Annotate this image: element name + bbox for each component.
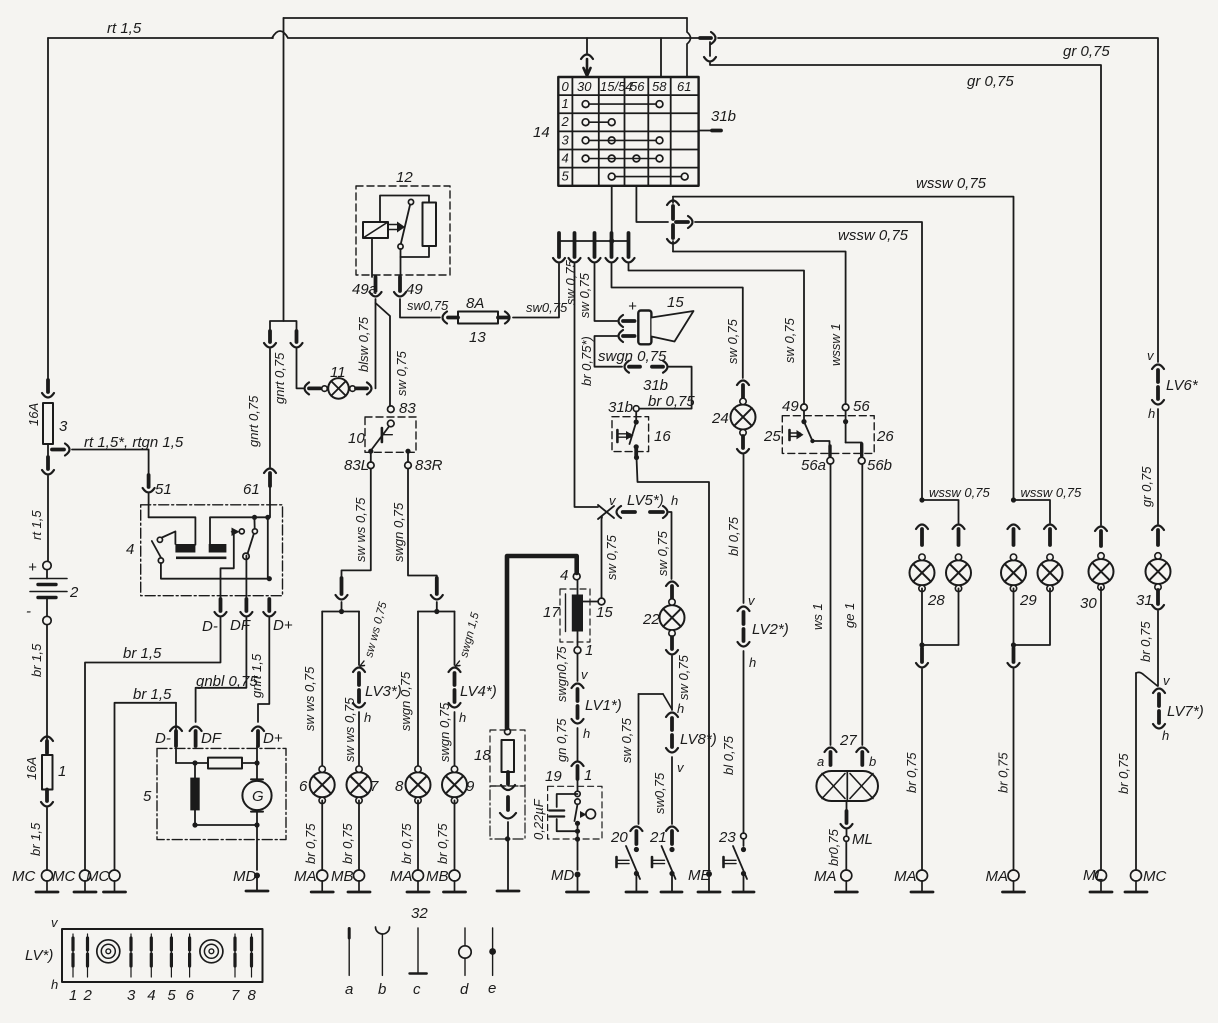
svg-text:19: 19	[545, 768, 562, 785]
svg-text:gr 0,75: gr 0,75	[1139, 466, 1154, 507]
ground MC right	[1125, 870, 1147, 892]
svg-text:br 0,75*): br 0,75*)	[579, 336, 594, 386]
svg-text:7: 7	[370, 778, 379, 795]
wire swgn 0,75 coil 1 to LV1	[577, 654, 579, 681]
svg-text:5: 5	[167, 987, 176, 1004]
svg-text:e: e	[488, 980, 496, 997]
svg-text:G: G	[252, 788, 264, 805]
connector LV8	[666, 713, 678, 753]
svg-text:D+: D+	[273, 617, 293, 634]
legend symbol a	[348, 929, 350, 976]
svg-text:56a: 56a	[801, 457, 826, 474]
svg-text:sw 0,75: sw 0,75	[655, 530, 670, 576]
wire lamp 11 to 49a	[375, 299, 377, 388]
wire col 56 drop	[636, 186, 668, 222]
wire spark plug to ground	[497, 822, 519, 891]
connector horn minus	[619, 330, 635, 342]
svg-text:LV8*): LV8*)	[680, 731, 717, 748]
ground MC 2	[74, 870, 96, 892]
parking lamp 31	[1146, 553, 1171, 591]
stop lamp 22	[660, 599, 685, 637]
svg-text:3: 3	[127, 987, 136, 1004]
terminal 83R	[405, 451, 412, 468]
wire 49a branch to switch 10	[376, 303, 391, 406]
svg-text:56: 56	[630, 79, 645, 94]
regulator cutout contact arm	[152, 537, 164, 563]
dimmer 49 contact	[801, 411, 812, 441]
wire harness pin 2 down to LV5	[575, 264, 599, 507]
suppressor resistor body	[502, 740, 515, 772]
svg-text:sw 0,75: sw 0,75	[394, 350, 409, 396]
svg-text:ME: ME	[688, 867, 711, 884]
connector DF regulator	[240, 599, 252, 617]
wire relay output to 49	[400, 249, 402, 277]
junction bar lamps 6/7	[322, 602, 359, 614]
connector below lamp 24	[737, 436, 749, 454]
lamp 28 right	[946, 554, 971, 592]
svg-text:0: 0	[562, 79, 570, 94]
fuse 3 16A body	[43, 403, 53, 444]
svg-text:blsw 0,75: blsw 0,75	[356, 316, 371, 372]
wire fuse 13 to relay terminal 49	[400, 299, 440, 318]
connector above fuse 3	[42, 380, 54, 398]
svg-text:swgn0,75: swgn0,75	[554, 646, 569, 702]
wire to connector LV3	[358, 612, 360, 666]
svg-text:sw 0,75: sw 0,75	[782, 317, 797, 363]
svg-text:h: h	[583, 726, 590, 741]
svg-text:h: h	[459, 710, 466, 725]
wire swgn 0,75 from 83R	[408, 469, 437, 578]
ground bar switch 23	[733, 874, 754, 893]
svg-text:wssw 0,75: wssw 0,75	[929, 485, 990, 500]
wire lamp 30 to ML	[1100, 587, 1102, 870]
connector cross splice 56	[667, 197, 693, 252]
connector right of fuse 13	[498, 312, 510, 324]
terminal 56b	[858, 457, 865, 464]
terminal 56a	[827, 457, 834, 464]
svg-text:DF: DF	[201, 730, 222, 747]
svg-text:MC: MC	[52, 868, 75, 885]
wire lamp 31 return to MC	[1136, 672, 1158, 870]
svg-text:a: a	[345, 981, 353, 998]
wire gnrt riser from 61 bus	[283, 18, 285, 321]
regulator DF step link	[221, 534, 234, 579]
wire br 0,75 lamps 29	[1013, 669, 1015, 870]
tail lamp 24	[731, 398, 756, 436]
svg-text:br 0,75: br 0,75	[303, 823, 318, 864]
wire harness pin 5 to dimmer 49	[629, 264, 805, 404]
terminal 56 dimmer	[842, 404, 849, 411]
svg-text:83: 83	[399, 400, 416, 417]
wire lamp 7 to ground MB	[358, 800, 360, 870]
headlamp connector block LV box	[62, 929, 263, 982]
lamp 29 left	[1001, 554, 1026, 592]
terminal 49 dimmer	[801, 404, 808, 411]
svg-text:8: 8	[248, 987, 257, 1004]
terminal suppressor top	[505, 729, 511, 735]
wire br 1,5 D- to ground MC2	[85, 618, 221, 870]
wire sw 0,75 to switch 20	[638, 694, 640, 824]
ignition-light switch 14 table frame	[558, 77, 698, 186]
svg-text:30: 30	[1080, 595, 1097, 612]
wire 51 into regulator	[148, 494, 150, 517]
ground bar switch 21	[661, 874, 682, 893]
svg-text:DF: DF	[230, 617, 251, 634]
ground MC battery	[36, 870, 58, 892]
svg-text:d: d	[460, 981, 469, 998]
svg-text:D-: D-	[202, 618, 218, 635]
svg-text:br 1,5: br 1,5	[123, 645, 162, 662]
connector pair swgn 31b	[625, 361, 668, 373]
condenser branch	[557, 794, 578, 807]
ground MB lamps 9	[444, 870, 466, 892]
svg-text:rt 1,5: rt 1,5	[107, 20, 142, 37]
generator field coil	[190, 778, 199, 811]
svg-text:+: +	[28, 559, 37, 576]
connector 49	[394, 277, 406, 297]
svg-text:29: 29	[1019, 592, 1037, 609]
svg-text:4: 4	[562, 151, 569, 166]
connector a lamp 27	[825, 748, 837, 766]
svg-text:LV5*): LV5*)	[627, 492, 664, 509]
wire gnbl 0,75 DF to generator	[196, 618, 247, 722]
wire br 1,5 generator D- to MC3	[175, 703, 177, 746]
wire ws 1 from 56a	[830, 464, 832, 745]
connector below lamps 28	[916, 648, 928, 668]
branch stop switch 20	[639, 694, 672, 709]
switch position 4 contacts 30-15/54-56-58	[582, 155, 663, 162]
svg-text:11: 11	[330, 364, 346, 381]
svg-text:13: 13	[469, 329, 486, 346]
terminal 15 ignition coil	[598, 598, 605, 605]
svg-text:swgn 0,75: swgn 0,75	[391, 502, 406, 562]
ground MA lamps 29	[1003, 870, 1025, 892]
connector right lamps 28	[953, 525, 965, 546]
ground MA lamps 8	[407, 870, 429, 892]
regulator top bus right	[210, 517, 268, 544]
svg-text:ge 1: ge 1	[842, 603, 857, 628]
wire LV4 to lamp 9	[454, 712, 456, 766]
blinker lamp 8	[406, 766, 431, 804]
connector 51	[143, 475, 155, 493]
svg-text:gnrt 1,5: gnrt 1,5	[249, 653, 264, 698]
ground bar switch 20	[626, 874, 647, 893]
harness connector pin 3	[589, 233, 601, 263]
svg-text:LV*): LV*)	[25, 947, 53, 964]
svg-text:1: 1	[58, 763, 66, 780]
svg-text:16A: 16A	[24, 757, 39, 780]
svg-text:MA: MA	[894, 868, 917, 885]
wire harness pin 4 to lamp 24	[612, 264, 743, 378]
wire to connector LV4	[454, 612, 456, 666]
connector left lamps 28	[916, 525, 928, 546]
svg-text:sw 0,75: sw 0,75	[619, 717, 634, 763]
connector gnrt right	[291, 331, 303, 348]
svg-text:br 0,75: br 0,75	[904, 752, 919, 793]
wire lamp 8 to ground MA	[417, 800, 419, 870]
connector left of fuse 13	[443, 312, 459, 324]
wire horn button to ME	[637, 458, 710, 871]
dimmer actuator	[790, 430, 804, 440]
svg-text:16A: 16A	[26, 403, 41, 426]
switch position 1 contacts 30-58	[582, 101, 663, 108]
condenser plates	[549, 811, 564, 817]
svg-text:MB: MB	[426, 868, 449, 885]
switch position 2 contacts 30-15/54	[582, 119, 615, 126]
wire LV3 to lamp 7	[358, 712, 360, 766]
wire horn minus to swgn connector	[595, 336, 623, 367]
wire 31b br 0,75 to horn button	[640, 367, 692, 409]
stop switch 21	[652, 827, 678, 880]
connector lamp group 8/9 feed	[431, 578, 443, 600]
svg-text:MA: MA	[986, 868, 1009, 885]
ground MA lamps 28	[911, 870, 933, 892]
wire fuse 3 to branch junction	[47, 444, 49, 455]
wire br 0,75 lamp 31 to LV7	[1157, 611, 1159, 686]
svg-text:10: 10	[348, 430, 365, 447]
connector 49a	[370, 277, 382, 297]
junction dots top bus	[252, 515, 271, 520]
svg-text:15: 15	[596, 604, 613, 621]
spark plug gap	[500, 797, 516, 819]
svg-text:0,22µF: 0,22µF	[531, 798, 546, 840]
regulator right actuator arrow	[232, 528, 240, 537]
svg-text:56b: 56b	[867, 457, 892, 474]
relay 12 resistor	[423, 203, 437, 247]
LV block pin 4	[150, 934, 152, 977]
svg-text:ML: ML	[1083, 867, 1104, 884]
breaker 19 box	[548, 786, 602, 839]
svg-text:sw ws 0,75: sw ws 0,75	[302, 666, 317, 731]
svg-text:14: 14	[533, 124, 550, 141]
wire bl 0,75 lower	[743, 651, 745, 833]
wire branch to regulator 51	[72, 450, 149, 476]
connector below lamp 22	[666, 637, 678, 655]
wire branch down from splice to lower gr wire	[704, 42, 1101, 525]
wire sw ws 0,75 to lamp 6	[321, 612, 323, 766]
suppressor 18 upper box	[490, 730, 525, 786]
wire br 0,75 lamps 28	[921, 669, 923, 870]
svg-text:b: b	[378, 981, 386, 998]
regulator bottom bus	[161, 563, 269, 579]
svg-text:sw ws 0,75: sw ws 0,75	[342, 697, 357, 762]
generator field circuit	[176, 746, 208, 778]
connector D- generator	[170, 727, 182, 747]
svg-text:21: 21	[649, 829, 667, 846]
svg-text:15: 15	[667, 294, 684, 311]
terminal MD generator	[254, 873, 260, 879]
svg-text:28: 28	[927, 592, 945, 609]
ground bar MD generator	[246, 878, 268, 891]
svg-text:br 0,75: br 0,75	[399, 823, 414, 864]
svg-text:83L: 83L	[344, 457, 369, 474]
svg-text:1: 1	[562, 96, 569, 111]
relay 12 coil	[363, 222, 388, 238]
svg-text:61: 61	[243, 481, 260, 498]
wire gr 0,75 LV6 to lamp 31	[1157, 409, 1159, 524]
connector below branch	[42, 457, 54, 475]
svg-text:rt 1,5: rt 1,5	[29, 510, 44, 540]
svg-text:swgn 0,75: swgn 0,75	[398, 671, 413, 731]
svg-text:MD: MD	[551, 867, 574, 884]
svg-text:31b: 31b	[608, 399, 633, 416]
horn 15 trumpet	[652, 311, 694, 342]
connector left of lamp 11	[305, 382, 321, 394]
svg-text:-: -	[26, 603, 31, 620]
switch position 3 contacts 30-15/54-58	[582, 137, 663, 144]
wire lamps 28 merge	[919, 588, 958, 647]
svg-text:5: 5	[562, 169, 570, 184]
wire LV8 to switch 21	[671, 757, 673, 824]
generator armature G	[242, 779, 271, 811]
svg-text:gr 0,75: gr 0,75	[1063, 43, 1110, 60]
svg-text:rt 1,5*, rtgn 1,5: rt 1,5*, rtgn 1,5	[84, 434, 184, 451]
switch 10 moving contact	[372, 420, 394, 449]
ignition coil 17 box	[560, 589, 590, 642]
regulator coil left	[175, 544, 195, 553]
harness connector pin 2	[569, 233, 581, 263]
svg-text:br 0,75: br 0,75	[340, 823, 355, 864]
svg-text:83R: 83R	[415, 457, 443, 474]
svg-text:sw0,75: sw0,75	[652, 772, 667, 814]
LV block pin 6	[189, 934, 191, 977]
svg-text:h: h	[677, 701, 684, 716]
relay 12 actuator arrow	[389, 222, 405, 233]
svg-text:MA: MA	[294, 868, 317, 885]
terminal MD breaker	[575, 872, 581, 878]
svg-text:br 1,5: br 1,5	[28, 822, 43, 856]
connector splice top right	[700, 32, 716, 44]
svg-text:br 0,75: br 0,75	[435, 823, 450, 864]
svg-text:20: 20	[610, 829, 628, 846]
svg-text:MB: MB	[331, 868, 354, 885]
wire swgn 0,75 to lamp 8	[417, 612, 419, 766]
fuse 13 8A body	[458, 312, 498, 324]
battery 2	[30, 561, 67, 624]
wire ge 1 from 56b	[861, 464, 863, 745]
blinker lamp 9	[442, 766, 467, 804]
harness connector pin 1	[553, 233, 565, 263]
harness connector pin 4	[606, 233, 618, 263]
generator regulating resistor	[208, 758, 242, 769]
regulator DF output drop	[245, 556, 247, 600]
generator bottom bus	[192, 810, 259, 827]
connector right of lamp 11	[356, 382, 372, 394]
dimmer 56 link to 56b	[843, 411, 862, 456]
tail lamp 30	[1089, 553, 1114, 591]
junction dot lamps 28 feed	[919, 497, 924, 502]
switch 10 box	[365, 417, 416, 452]
wire hop over gnrt riser	[272, 31, 288, 38]
connector 1 breaker	[572, 762, 584, 780]
svg-text:2: 2	[69, 584, 79, 601]
svg-text:h: h	[1162, 728, 1169, 743]
switch 10 actuator	[382, 428, 392, 442]
legend symbol c	[410, 928, 427, 974]
svg-text:58: 58	[652, 79, 667, 94]
connector gnrt left	[264, 331, 276, 348]
wire 61 through-link D+	[267, 517, 269, 578]
svg-text:26: 26	[876, 428, 894, 445]
wire switch 16 output	[634, 447, 639, 460]
branch bar lamps 28	[922, 500, 959, 523]
svg-text:5: 5	[143, 788, 152, 805]
fuse 1 16A body	[42, 755, 53, 790]
wire to battery plus	[47, 476, 49, 561]
wire lamp 9 to ground MB	[454, 800, 456, 870]
connector right lamps 29	[1044, 525, 1056, 546]
svg-text:51: 51	[155, 481, 172, 498]
svg-text:a: a	[817, 754, 824, 769]
svg-text:61: 61	[677, 79, 691, 94]
legend symbol d	[459, 928, 471, 975]
svg-text:3: 3	[59, 418, 68, 435]
svg-text:sw0,75: sw0,75	[526, 300, 568, 315]
wire rt 1,5 horizontal main feed	[48, 37, 273, 39]
wire gnrt to indicator lamp 11	[297, 349, 304, 388]
wire fuse 1 to ground MC	[46, 808, 48, 870]
wire harness pin 3 to horn plus	[595, 264, 618, 321]
svg-text:br0,75: br0,75	[826, 828, 841, 866]
svg-text:30: 30	[577, 79, 592, 94]
svg-text:D+: D+	[263, 730, 283, 747]
svg-text:MA: MA	[814, 868, 837, 885]
wire 61-bus drop to ignition switch col 61 with hop	[687, 18, 691, 77]
connector LV6	[1152, 365, 1164, 405]
connector below lamp 31	[1152, 590, 1164, 610]
svg-text:br 1,5: br 1,5	[29, 643, 44, 677]
LV block pin 2	[87, 934, 89, 977]
svg-text:sw ws 0,75: sw ws 0,75	[353, 497, 368, 562]
svg-text:br 1,5: br 1,5	[133, 686, 172, 703]
connector D- regulator	[215, 599, 227, 617]
svg-text:MD: MD	[233, 868, 256, 885]
wire wssw 0,75 upper to lamps 29	[673, 197, 1014, 500]
svg-text:8A: 8A	[466, 295, 484, 312]
generator 5 box	[157, 748, 286, 839]
wire lamp 27 to ML	[841, 801, 853, 836]
connector lamp group 6/7 feed	[336, 578, 348, 600]
svg-text:ws 1: ws 1	[810, 603, 825, 630]
regulator top bus left	[149, 517, 196, 544]
junction dot lamps 29 feed	[1011, 497, 1016, 502]
connector LV5	[617, 506, 668, 518]
svg-text:bl 0,75: bl 0,75	[726, 516, 741, 556]
svg-text:wssw 1: wssw 1	[828, 323, 843, 366]
svg-text:h: h	[364, 710, 371, 725]
svg-text:4: 4	[147, 987, 155, 1004]
spark plug box	[490, 786, 525, 839]
relay 12 armature arm	[398, 199, 414, 249]
blinker lamp 6	[310, 766, 335, 804]
ignition coil 17 winding	[572, 595, 583, 632]
connector LV1	[572, 684, 584, 724]
wire drop to ignition switch col 58	[660, 38, 662, 77]
svg-text:49: 49	[406, 281, 423, 298]
branch connector to terminal 51	[52, 444, 70, 456]
wire lamps 29 merge	[1011, 588, 1050, 647]
svg-text:h: h	[671, 493, 678, 508]
svg-text:MC: MC	[86, 868, 109, 885]
wire battery minus to fuse 1	[46, 625, 48, 742]
svg-text:ML: ML	[852, 831, 873, 848]
charge indicator lamp 11	[322, 378, 356, 399]
svg-text:h: h	[749, 655, 756, 670]
connector above lamp 24	[737, 381, 749, 399]
wire gr 0,75 upper to right edge	[718, 38, 1158, 362]
svg-text:br 0,75: br 0,75	[996, 752, 1011, 793]
lamp 28 left	[910, 554, 935, 592]
